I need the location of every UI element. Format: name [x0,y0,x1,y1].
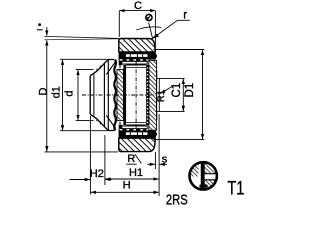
dimension s [147,114,168,196]
flange left outline top [90,60,115,131]
leader R [126,153,141,165]
bore sleeve black bar right (threaded) [146,65,149,125]
svg-text:r: r [183,10,187,22]
svg-text:R: R [127,153,135,165]
svg-text:H: H [123,180,131,192]
taper mini dimension arrows [44,27,118,40]
dimension D1 [154,50,205,140]
bore column [126,65,146,125]
dimension C1 [160,78,185,111]
svg-text:H1: H1 [129,167,143,179]
vertical centerline of rollers [135,61,137,129]
dimension d1 [51,59,108,130]
seal edge left (wavy) [114,60,116,131]
svg-text:C: C [134,0,142,12]
horizontal axis centerline [82,94,157,96]
dimension D [37,40,118,152]
leader R1 [156,86,172,102]
svg-text:H2: H2 [90,168,104,180]
leader from symbol to ring corner [149,23,153,39]
crown radius arc [136,27,161,30]
dimension H1 [105,167,158,179]
seal type icon 2RS [189,162,218,191]
stud boss right [157,70,160,120]
taper angle label (1 deg) [37,23,43,30]
lubrication hole symbol [146,14,152,20]
outer ring top (hatched section) [119,39,156,53]
dimension C [119,0,155,49]
svg-text:d1: d1 [51,86,63,98]
svg-text:T1: T1 [227,179,244,200]
inner hatched column right [149,60,157,130]
outer ring bottom (hatched section) [119,138,156,152]
svg-text:2RS: 2RS [166,192,188,207]
dimension d [64,70,94,121]
dimension H2 [70,116,112,195]
svg-text:D1: D1 [184,83,196,98]
inner sleeve bottom [119,122,148,129]
seal right top (black section) [148,52,158,60]
inner hatched column left [117,70,123,121]
leader r [150,10,189,40]
seal right bottom (black section) [148,131,158,139]
svg-text:s: s [162,153,168,165]
svg-text:R1: R1 [156,90,167,102]
bore sleeve black bar left [123,65,126,125]
needle roller band top [119,52,150,61]
inner sleeve top [119,61,148,68]
svg-text:D: D [37,87,49,95]
flange left outline bottom [90,114,115,130]
svg-text:d: d [64,90,76,96]
needle roller band bottom [119,129,150,138]
dimension H [91,180,159,193]
svg-text:C1: C1 [171,83,183,98]
